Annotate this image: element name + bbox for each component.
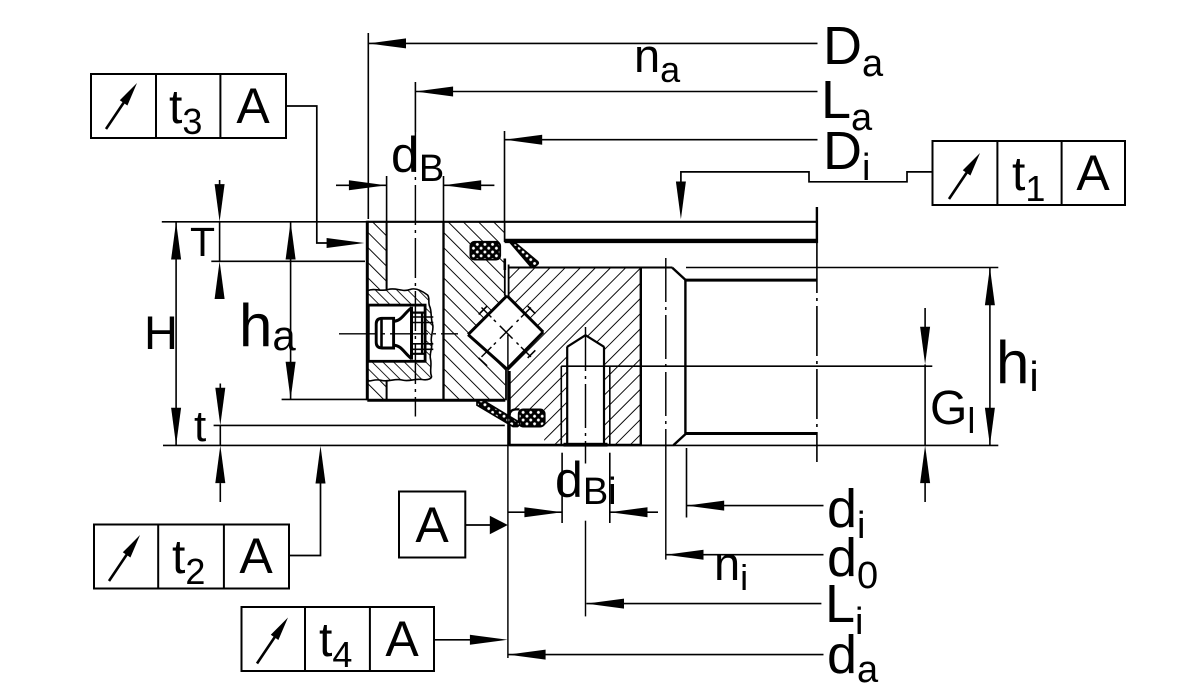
- dimension D_i: [504, 131, 506, 222]
- inner ring bottom-right chamfer: [674, 434, 687, 446]
- upper seal body: [470, 242, 500, 260]
- gap below roller right line / inner ring lower-left edge: [508, 371, 510, 445]
- gap above roller right line: [508, 265, 510, 297]
- svg-text:H: H: [144, 306, 178, 359]
- dimension d_a: [507, 335, 509, 658]
- seal cover band bottom (thick): [505, 239, 817, 243]
- cover left edge / D_i extension lower part: [504, 222, 506, 242]
- dimension T: [219, 222, 221, 261]
- surface symbol box t1: [933, 141, 1126, 205]
- inner ring hatched section: [507, 268, 641, 446]
- dimension G_l: [924, 364, 926, 445]
- t4 leader: [434, 639, 471, 641]
- nipple thread shank: [412, 313, 426, 354]
- outer ring bottom face: [367, 399, 505, 402]
- inner ring top-right chamfer: [672, 268, 685, 280]
- raceway shoulder ticks: [479, 306, 487, 314]
- dimension d_Bi: [561, 453, 563, 523]
- svg-text:A: A: [385, 611, 419, 667]
- extension line G_l top: [561, 365, 932, 367]
- dimension d_0: [666, 554, 824, 556]
- nipple hex face: [410, 307, 413, 360]
- dimension D_a: [367, 33, 369, 219]
- nipple head: [376, 318, 393, 348]
- nipple thread lines into ring: [412, 316, 434, 318]
- dimension h_a: [290, 222, 292, 400]
- extension line bottom H/h_i/G_l: [163, 444, 998, 446]
- grease nipple break-out cavity (hatched, pocket excluded): [367, 289, 433, 381]
- gap below roller left line: [505, 369, 507, 400]
- svg-text:A: A: [415, 497, 449, 553]
- bearing axis dash-dot: [816, 243, 818, 462]
- nipple trumpet neck: [394, 308, 412, 359]
- surface symbol box t4: [242, 607, 435, 671]
- lower seal body: [519, 409, 545, 426]
- gap above roller left line: [503, 259, 506, 271]
- svg-text:t: t: [194, 402, 206, 451]
- dimension d_i: [686, 448, 688, 518]
- outer ring left edge: [366, 221, 369, 401]
- datum A box: [399, 492, 465, 558]
- cavity wavy outline: [367, 289, 433, 381]
- bolt hole left wall: [386, 222, 388, 291]
- tapped hole axis dash-dot: [585, 327, 587, 452]
- d0 channel right wall: [684, 280, 686, 434]
- nipple axis dash-dot: [339, 333, 458, 335]
- svg-text:A: A: [239, 528, 273, 584]
- inner ring band top face (recessed): [685, 279, 817, 282]
- upper seal lip: [511, 244, 538, 268]
- d0 hole axis dash-dot: [665, 258, 667, 450]
- dimension L_i: [586, 603, 821, 605]
- t2 leader: [289, 483, 321, 556]
- nipple pocket: [368, 305, 425, 361]
- tapped hole opening thick seat: [564, 443, 608, 447]
- outer ring top face line: [367, 221, 817, 223]
- nipple head facet: [380, 318, 383, 348]
- extension line t top (seal land): [214, 424, 505, 426]
- datum A leader and triangle: [465, 524, 490, 526]
- d0 channel left wall: [640, 268, 642, 446]
- extension line T/H top left: [162, 221, 367, 223]
- lower seal groove top line with corner: [510, 409, 520, 415]
- tapped hole thread lines: [560, 366, 562, 445]
- dimension h_i: [989, 268, 991, 446]
- svg-text:A: A: [236, 78, 270, 134]
- cover right closure: [816, 207, 818, 243]
- t1 leader: [681, 172, 933, 182]
- bolt hole right wall: [442, 222, 444, 400]
- roller axes dash-dot diagonals: [482, 308, 492, 318]
- extension line T bottom: [211, 260, 365, 262]
- extension line h_a bottom: [282, 398, 368, 400]
- dimension H: [175, 222, 177, 446]
- lower seal lip: [477, 400, 520, 426]
- surface symbol box t3: [91, 74, 286, 138]
- tapped hole drill walls: [566, 347, 568, 445]
- bolt hole axis dash-dot: [414, 132, 416, 417]
- t3 leader: [286, 106, 328, 243]
- svg-text:A: A: [1076, 145, 1110, 201]
- extension line h_i top: [686, 267, 998, 269]
- inner ring top face: [510, 267, 673, 269]
- dimension d_B: [386, 176, 388, 222]
- svg-text:T: T: [190, 219, 215, 265]
- tapped hole drill cone: [567, 335, 604, 347]
- dimension t: [219, 425, 221, 445]
- roller diamond raceway sides: [468, 296, 507, 335]
- surface symbol box t2: [94, 525, 289, 589]
- dimension L_a: [414, 82, 416, 132]
- inner ring bottom face: [510, 444, 642, 447]
- outer ring hatched section: [367, 222, 505, 400]
- inner ring band bottom face: [685, 432, 817, 435]
